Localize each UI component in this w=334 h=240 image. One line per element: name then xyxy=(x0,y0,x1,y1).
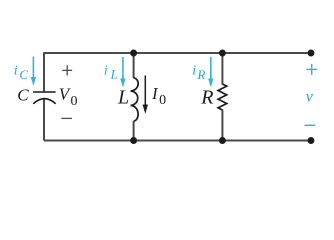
capacitor C (curved-plate symbol) xyxy=(33,92,56,104)
junction: top of resistor branch xyxy=(219,50,226,57)
junction: top of inductor branch xyxy=(130,50,137,57)
junction: bottom of inductor branch xyxy=(130,137,137,144)
wire: inductor branch upper lead xyxy=(133,53,135,78)
junction: bottom of resistor branch xyxy=(219,137,226,144)
wire: top rail from capacitor branch to right terminal xyxy=(44,52,311,54)
svg-text:0: 0 xyxy=(71,94,78,109)
svg-text:v: v xyxy=(306,89,314,106)
svg-text:i: i xyxy=(192,63,196,78)
wire: resistor branch lower lead xyxy=(221,110,223,141)
wire: inductor branch lower lead xyxy=(133,121,135,141)
terminal: top right xyxy=(308,50,315,57)
label − (V0 polarity) xyxy=(61,117,72,119)
wire: resistor branch upper lead xyxy=(221,53,223,85)
svg-text:R: R xyxy=(200,86,213,108)
svg-text:L: L xyxy=(110,66,118,81)
svg-text:R: R xyxy=(196,67,205,82)
current arrow i_R xyxy=(208,57,213,87)
svg-text:0: 0 xyxy=(159,93,166,108)
label + (v polarity) xyxy=(306,64,317,75)
current arrow I0 (initial inductor current) xyxy=(143,76,148,115)
label − (v polarity) xyxy=(305,124,316,126)
svg-text:C: C xyxy=(17,85,29,104)
wire: capacitor branch upper lead xyxy=(43,52,45,91)
inductor L (coil, three right-facing loops) xyxy=(131,78,139,121)
wire: bottom rail from capacitor branch to right terminal xyxy=(44,140,311,142)
resistor R (zigzag) xyxy=(218,84,227,110)
svg-text:i: i xyxy=(14,64,18,79)
svg-text:I: I xyxy=(151,84,159,103)
svg-text:L: L xyxy=(117,86,129,108)
current arrow i_L xyxy=(120,57,125,87)
svg-text:i: i xyxy=(104,63,108,78)
svg-text:C: C xyxy=(19,67,28,82)
wire: capacitor branch lower lead xyxy=(43,99,45,141)
current arrow i_C xyxy=(31,57,36,86)
label + (V0 polarity) xyxy=(62,65,72,75)
terminal: bottom right xyxy=(308,137,315,144)
